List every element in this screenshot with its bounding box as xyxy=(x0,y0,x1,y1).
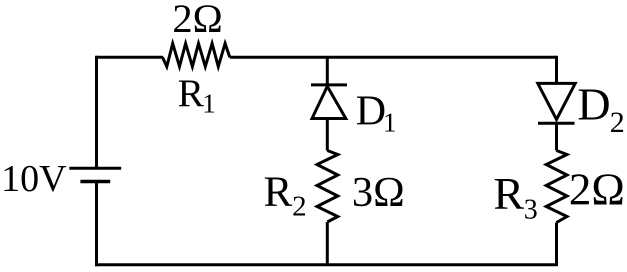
svg-text:3: 3 xyxy=(524,194,538,225)
resistor R2 xyxy=(317,151,338,223)
svg-text:2: 2 xyxy=(610,106,625,139)
svg-text:D: D xyxy=(577,79,610,130)
svg-text:2Ω: 2Ω xyxy=(569,165,625,215)
svg-text:R: R xyxy=(264,169,293,216)
battery V1 long plate xyxy=(69,167,121,170)
diode D1 cathode bar xyxy=(311,83,347,86)
wire top rail left segment xyxy=(97,56,164,59)
svg-text:2: 2 xyxy=(292,191,307,223)
wire left column bottom xyxy=(95,182,98,266)
svg-text:D: D xyxy=(356,89,386,135)
svg-text:R: R xyxy=(178,71,205,115)
diode D1 triangle xyxy=(312,86,346,118)
wire R3 to bottom rail xyxy=(555,223,558,265)
resistor R3 xyxy=(546,151,567,223)
diode D2 triangle xyxy=(538,83,575,119)
wire top rail right segment xyxy=(230,56,557,59)
wire D1 to R2 xyxy=(326,119,329,151)
svg-text:2Ω: 2Ω xyxy=(172,0,222,41)
wire bottom rail xyxy=(95,263,558,266)
svg-text:3Ω: 3Ω xyxy=(352,169,405,216)
wire D1 branch top xyxy=(326,57,329,85)
wire D2 branch top xyxy=(555,56,558,83)
wire D2 to R3 xyxy=(555,123,558,150)
svg-text:R: R xyxy=(493,168,524,219)
svg-text:10V: 10V xyxy=(1,158,67,200)
svg-text:1: 1 xyxy=(383,108,397,138)
resistor R1 xyxy=(163,44,230,67)
battery V1 short plate xyxy=(80,180,110,184)
diode D2 cathode bar xyxy=(538,122,575,125)
wire left column top xyxy=(95,56,98,167)
svg-text:1: 1 xyxy=(202,88,216,118)
wire R2 to bottom rail xyxy=(326,222,329,265)
